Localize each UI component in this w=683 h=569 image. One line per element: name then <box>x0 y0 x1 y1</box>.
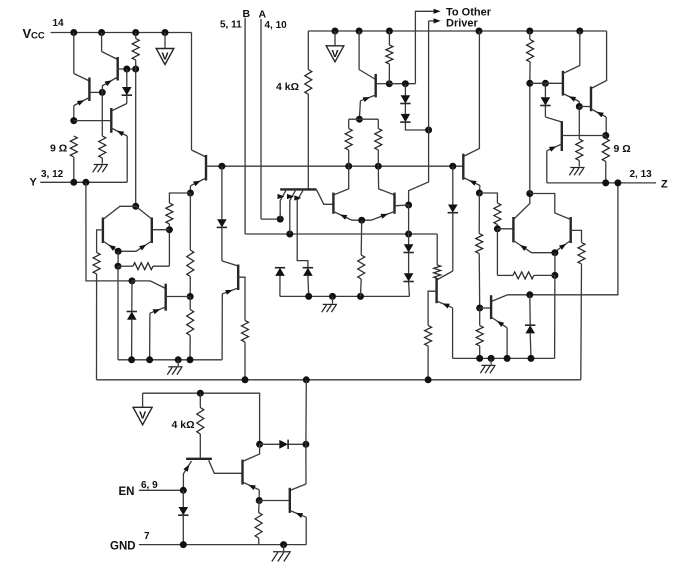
svg-text:Y: Y <box>30 177 38 189</box>
svg-text:4 kΩ: 4 kΩ <box>276 81 299 93</box>
svg-text:2, 13: 2, 13 <box>630 169 653 180</box>
svg-text:Driver: Driver <box>446 18 479 30</box>
svg-text:A: A <box>259 9 267 21</box>
svg-text:V: V <box>331 48 338 60</box>
svg-text:CC: CC <box>31 31 45 42</box>
svg-text:EN: EN <box>119 486 135 498</box>
svg-text:4, 10: 4, 10 <box>265 20 288 31</box>
svg-text:9 Ω: 9 Ω <box>50 143 67 155</box>
svg-text:9 Ω: 9 Ω <box>614 143 631 155</box>
svg-text:3, 12: 3, 12 <box>41 169 64 180</box>
svg-text:GND: GND <box>110 541 136 553</box>
svg-text:7: 7 <box>144 531 150 542</box>
svg-text:14: 14 <box>53 18 65 29</box>
svg-text:4 kΩ: 4 kΩ <box>172 419 195 431</box>
svg-text:B: B <box>243 8 251 20</box>
svg-text:Z: Z <box>661 179 668 191</box>
svg-text:V: V <box>161 51 168 63</box>
svg-text:5, 11: 5, 11 <box>220 20 242 31</box>
svg-text:6, 9: 6, 9 <box>141 480 158 491</box>
svg-text:V: V <box>139 410 146 422</box>
